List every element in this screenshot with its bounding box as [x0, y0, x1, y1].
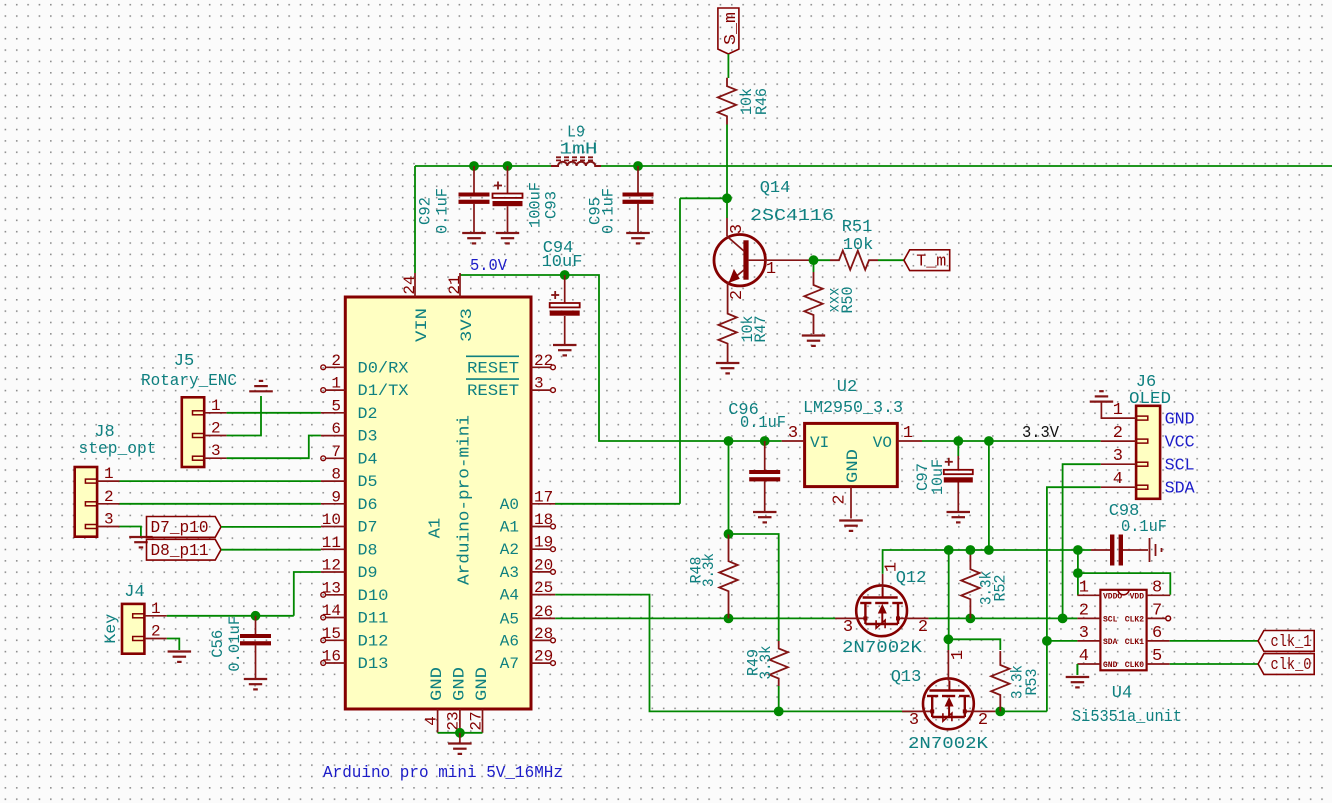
svg-text:3: 3 [104, 511, 114, 529]
svg-text:U2: U2 [837, 378, 857, 397]
svg-text:3.3k: 3.3k [700, 553, 718, 587]
svg-text:23: 23 [445, 711, 463, 730]
svg-text:R51: R51 [842, 218, 873, 237]
svg-text:13: 13 [322, 579, 341, 597]
svg-text:Arduino-pro-mini: Arduino-pro-mini [455, 415, 474, 585]
svg-text:D7_p10: D7_p10 [151, 519, 209, 538]
svg-text:D13: D13 [358, 655, 389, 673]
svg-text:Q14: Q14 [760, 179, 791, 198]
svg-text:D3: D3 [358, 428, 378, 446]
svg-text:A5: A5 [500, 610, 519, 628]
svg-text:C92: C92 [416, 197, 434, 225]
svg-text:RESET: RESET [467, 359, 519, 377]
svg-text:26: 26 [534, 603, 553, 621]
svg-text:12: 12 [322, 557, 341, 575]
svg-text:4: 4 [1113, 470, 1123, 489]
svg-text:1: 1 [1079, 578, 1089, 597]
svg-text:A3: A3 [500, 564, 519, 582]
svg-text:A4: A4 [500, 587, 519, 605]
svg-text:3: 3 [843, 618, 853, 637]
svg-text:1: 1 [151, 600, 161, 618]
svg-text:GND: GND [1165, 411, 1195, 430]
svg-text:D8_p11: D8_p11 [151, 542, 209, 561]
svg-text:GND: GND [844, 449, 862, 483]
svg-text:10uF: 10uF [929, 459, 947, 495]
svg-text:25: 25 [534, 579, 553, 597]
svg-text:1: 1 [766, 260, 776, 279]
svg-text:16: 16 [322, 648, 341, 666]
svg-text:11: 11 [322, 534, 341, 552]
svg-text:R53: R53 [1023, 669, 1041, 696]
svg-text:3: 3 [728, 224, 747, 234]
svg-text:3: 3 [909, 711, 919, 730]
svg-text:3: 3 [1079, 624, 1089, 643]
svg-text:VDDO: VDDO [1103, 592, 1122, 601]
svg-text:R46: R46 [753, 88, 771, 115]
svg-text:2: 2 [830, 494, 849, 504]
svg-text:4: 4 [422, 716, 440, 726]
svg-text:CLK0: CLK0 [1125, 661, 1144, 670]
svg-text:3: 3 [788, 424, 798, 443]
svg-text:6: 6 [331, 420, 341, 438]
svg-text:Q12: Q12 [896, 569, 927, 588]
svg-text:J5: J5 [174, 352, 194, 371]
svg-text:D4: D4 [358, 450, 378, 468]
svg-text:VCC: VCC [1165, 434, 1195, 453]
svg-text:C93: C93 [542, 191, 560, 219]
svg-text:0.1uF: 0.1uF [599, 188, 617, 234]
svg-text:OLED: OLED [1129, 390, 1171, 409]
svg-text:18: 18 [534, 511, 553, 529]
svg-text:2N7002K: 2N7002K [842, 639, 923, 658]
svg-text:10: 10 [322, 511, 341, 529]
svg-text:8: 8 [331, 466, 341, 484]
svg-text:D6: D6 [358, 496, 378, 514]
svg-text:clk_0: clk_0 [1271, 656, 1312, 675]
svg-text:2: 2 [918, 618, 928, 637]
svg-text:3: 3 [1113, 447, 1123, 466]
svg-text:SCL: SCL [1103, 615, 1118, 624]
svg-text:D2: D2 [358, 405, 378, 423]
svg-text:3: 3 [211, 442, 221, 460]
svg-text:0.1uF: 0.1uF [740, 414, 786, 433]
svg-text:A1: A1 [500, 519, 519, 537]
svg-text:VIN: VIN [413, 308, 431, 342]
svg-text:1: 1 [211, 397, 221, 415]
svg-text:Rotary_ENC: Rotary_ENC [141, 372, 237, 391]
svg-text:27: 27 [467, 711, 485, 730]
svg-text:step_opt: step_opt [79, 440, 157, 459]
svg-text:A0: A0 [500, 496, 519, 514]
svg-text:19: 19 [534, 534, 553, 552]
svg-text:2SC4116: 2SC4116 [750, 207, 834, 226]
svg-text:A2: A2 [500, 541, 519, 559]
svg-text:SCL: SCL [1165, 457, 1195, 476]
svg-text:2: 2 [104, 488, 114, 506]
svg-text:2: 2 [331, 352, 341, 370]
svg-text:1mH: 1mH [560, 141, 598, 160]
svg-text:1: 1 [949, 650, 968, 660]
svg-text:3: 3 [534, 375, 544, 393]
svg-text:0.01uF: 0.01uF [226, 616, 244, 672]
svg-text:D11: D11 [358, 610, 389, 628]
svg-text:2: 2 [1079, 601, 1089, 620]
svg-text:U4: U4 [1112, 684, 1132, 703]
svg-text:24: 24 [401, 275, 419, 294]
svg-text:20: 20 [534, 556, 553, 574]
svg-text:clk_1: clk_1 [1271, 633, 1312, 652]
svg-text:0.1uF: 0.1uF [1121, 518, 1167, 537]
svg-text:2: 2 [211, 420, 221, 438]
svg-text:29: 29 [534, 648, 553, 666]
svg-text:17: 17 [534, 488, 553, 506]
svg-text:GND: GND [428, 667, 446, 701]
svg-text:21: 21 [446, 275, 464, 294]
svg-text:GND: GND [450, 667, 468, 701]
svg-text:7: 7 [331, 443, 341, 461]
svg-text:D7: D7 [358, 519, 378, 537]
svg-text:10uF: 10uF [542, 253, 583, 272]
svg-text:D5: D5 [358, 473, 378, 491]
svg-text:22: 22 [534, 352, 553, 370]
svg-text:SDA: SDA [1165, 480, 1196, 499]
svg-text:D10: D10 [358, 587, 389, 605]
svg-text:5: 5 [331, 397, 341, 415]
svg-text:LM2950_3.3: LM2950_3.3 [803, 399, 903, 418]
svg-text:Arduino pro mini 5V_16MHz: Arduino pro mini 5V_16MHz [323, 764, 563, 783]
svg-text:CLK2: CLK2 [1125, 615, 1144, 624]
svg-text:14: 14 [322, 602, 341, 620]
svg-text:15: 15 [322, 625, 341, 643]
svg-text:1: 1 [104, 465, 114, 483]
svg-text:3.3V: 3.3V [1022, 424, 1060, 443]
svg-text:D0/RX: D0/RX [358, 359, 409, 377]
svg-text:4: 4 [1079, 647, 1089, 666]
svg-text:3.3k: 3.3k [757, 646, 775, 680]
svg-text:A1: A1 [426, 518, 445, 538]
svg-text:A7: A7 [500, 655, 519, 673]
svg-text:2N7002K: 2N7002K [908, 735, 989, 754]
svg-text:1: 1 [1113, 401, 1123, 420]
svg-text:2: 2 [151, 623, 161, 641]
svg-text:SDA: SDA [1103, 638, 1118, 647]
svg-text:VI: VI [810, 434, 829, 452]
svg-text:9: 9 [331, 488, 341, 506]
svg-text:T_m: T_m [916, 252, 946, 271]
svg-text:VDD: VDD [1130, 592, 1145, 601]
svg-text:RESET: RESET [467, 382, 519, 400]
svg-text:Key: Key [102, 613, 120, 643]
svg-text:2: 2 [1113, 424, 1123, 443]
svg-text:J4: J4 [124, 583, 144, 602]
svg-text:5.0V: 5.0V [470, 257, 508, 276]
svg-text:2: 2 [978, 711, 988, 730]
svg-text:3V3: 3V3 [458, 308, 476, 342]
svg-text:D12: D12 [358, 632, 389, 650]
svg-text:VO: VO [873, 434, 892, 452]
svg-text:1: 1 [331, 375, 341, 393]
svg-text:A6: A6 [500, 632, 519, 650]
svg-text:28: 28 [534, 625, 553, 643]
svg-text:D1/TX: D1/TX [358, 382, 409, 400]
svg-text:S_m: S_m [722, 12, 741, 45]
svg-text:Si5351a_unit: Si5351a_unit [1072, 708, 1182, 727]
svg-text:10k: 10k [843, 236, 874, 255]
svg-text:1: 1 [903, 424, 913, 443]
svg-text:R47: R47 [752, 316, 770, 343]
svg-text:GND: GND [1103, 661, 1118, 670]
svg-text:R50: R50 [839, 287, 857, 314]
svg-text:CLK1: CLK1 [1125, 638, 1144, 647]
svg-text:R52: R52 [991, 575, 1009, 602]
svg-text:D8: D8 [358, 541, 378, 559]
svg-text:C56: C56 [209, 630, 227, 658]
svg-text:Q13: Q13 [891, 668, 922, 687]
svg-text:D9: D9 [358, 564, 378, 582]
svg-text:0.1uF: 0.1uF [433, 188, 451, 234]
svg-text:2: 2 [728, 290, 747, 300]
svg-text:GND: GND [473, 667, 491, 701]
